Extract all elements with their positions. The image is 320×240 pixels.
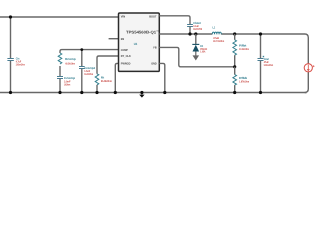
capacitor Ccomp2 (79, 66, 95, 76)
svg-text:Ccomp: Ccomp (64, 76, 75, 80)
wire: RT_CLK net (97, 56, 119, 74)
node: junction Rfbb on GND rail (233, 91, 236, 94)
svg-text:1.05A: 1.05A (200, 51, 205, 54)
wire: Cout to GND rail (260, 61, 262, 93)
node: junction GND pin on rail (163, 91, 166, 94)
wire: SW / VOUT rail (159, 34, 308, 64)
node: junction Cin on VIN rail (9, 15, 12, 18)
svg-text:10.2kOhm: 10.2kOhm (239, 48, 249, 51)
wire: COMP net (60, 50, 119, 53)
resistor Rt (95, 74, 112, 85)
inductor L1 (212, 25, 224, 43)
svg-text:16V/X7R8: 16V/X7R8 (193, 28, 202, 31)
svg-text:1.87kOhm: 1.87kOhm (239, 81, 249, 84)
node: junction D1 on SW rail (194, 32, 197, 35)
wire: bottom GND rail (0, 92, 307, 94)
node: junction Cin on GND rail (9, 91, 12, 94)
svg-text:TPS54560B-Q1: TPS54560B-Q1 (126, 30, 157, 35)
svg-text:10Ohm: 10Ohm (64, 84, 71, 87)
capacitor Ccomp (57, 76, 75, 87)
svg-text:GND: GND (151, 61, 156, 65)
capacitor Cout (258, 56, 274, 67)
wire: D1 cathode stub (195, 34, 197, 44)
wire: FB node to Rfbb (234, 67, 236, 75)
svg-text:L1: L1 (213, 25, 216, 29)
node: junction Cboot on SW rail (188, 32, 191, 35)
svg-text:COMP: COMP (121, 48, 128, 52)
svg-text:Rt: Rt (101, 76, 104, 80)
wire: Rfbt to FB node (234, 55, 236, 67)
svg-text:Rfbb: Rfbb (239, 76, 247, 80)
wire: Cin branch lower (10, 61, 12, 93)
current source: load Iout (304, 64, 314, 72)
svg-text:16.9Ohm: 16.9Ohm (84, 73, 93, 76)
wire: VIN top rail (0, 16, 119, 18)
node: junction Cout on VOUT rail (259, 32, 262, 35)
resistor Rcomp (58, 53, 76, 65)
svg-text:96.8kOhm: 96.8kOhm (101, 80, 113, 83)
resistor Rfbt (233, 40, 250, 55)
node: junction PWRGD on GND rail (114, 91, 117, 94)
node: junction Cout on GND rail (259, 91, 262, 94)
wire: FB net (159, 47, 234, 66)
wire: Cin branch upper (10, 17, 12, 58)
svg-text:Rcomp: Rcomp (65, 57, 76, 61)
svg-text:PWRGD: PWRGD (121, 62, 131, 66)
node: junction Ccomp2 on GND rail (80, 91, 83, 94)
ground: arrow below D1 (193, 52, 200, 61)
wire: load to GND rail corner (305, 72, 309, 93)
wire: Rfbb to GND rail (234, 85, 236, 92)
wire: BOOT net (159, 16, 190, 24)
wire: Ccomp2 branch (81, 50, 83, 67)
wire: Ccomp2 to GND rail (81, 69, 83, 93)
node: junction Rt on GND rail (95, 91, 98, 94)
svg-text:Rfbt: Rfbt (239, 44, 246, 48)
node: junction Ccomp on GND rail (58, 91, 61, 94)
svg-text:EN: EN (121, 37, 124, 41)
node: junction Ccomp2 on COMP net (80, 48, 83, 51)
op-amp U1: IC TPS54560B-Q1 body (119, 13, 160, 71)
svg-text:FB: FB (153, 45, 156, 49)
wire: GND pin to rail (159, 63, 165, 92)
node: VOUT junction divider (233, 32, 236, 35)
svg-text:5.65mOhm: 5.65mOhm (264, 64, 274, 67)
wire: PWRGD to GND rail (115, 63, 118, 92)
svg-text:3.65mOhm: 3.65mOhm (16, 64, 25, 67)
resistor Rfbb (233, 75, 250, 86)
wire: Cboot to SW rail (189, 27, 191, 34)
diode D1 (192, 44, 207, 54)
wire: Rcomp to Ccomp (59, 66, 61, 76)
capacitor Cin (7, 57, 25, 67)
svg-text:40.2kOhm: 40.2kOhm (65, 62, 75, 65)
svg-text:RT_CLK: RT_CLK (121, 54, 132, 58)
wire: Rfbt top stub (234, 34, 236, 40)
wire: Rt to GND rail (96, 85, 98, 93)
wire: EN floating stub (109, 38, 119, 40)
capacitor Cboot (187, 21, 202, 31)
wire: Ccomp to GND rail (59, 79, 61, 93)
svg-text:40.7mOhm: 40.7mOhm (213, 40, 225, 43)
svg-text:BOOT: BOOT (149, 15, 157, 19)
ground: rail ground symbol (139, 91, 144, 98)
node: FB junction (233, 65, 236, 68)
svg-text:U1: U1 (134, 42, 138, 46)
wire: Cout branch upper (260, 34, 262, 58)
svg-text:VIN: VIN (121, 15, 125, 19)
